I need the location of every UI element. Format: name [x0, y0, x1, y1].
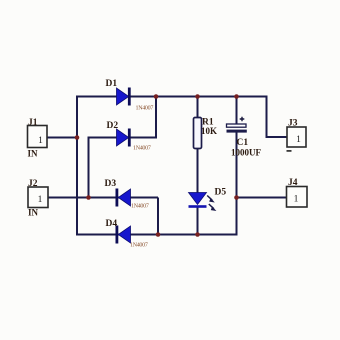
- svg-text:IN: IN: [28, 149, 39, 159]
- svg-text:D5: D5: [215, 188, 227, 198]
- wire C1 top: [236, 97, 238, 125]
- wire riser D2-to-J2 (x=88.5): [88, 137, 90, 198]
- wire J4 row: [237, 197, 287, 199]
- wire rail corner to J3: [267, 96, 288, 138]
- connector J1: [28, 118, 48, 159]
- svg-text:1N4007: 1N4007: [130, 243, 148, 249]
- capacitor C1: [227, 117, 262, 158]
- node C1 top junction: [234, 94, 239, 99]
- wire C1 bottom to rail: [236, 132, 238, 236]
- svg-text:1: 1: [38, 195, 43, 205]
- connector J3: [287, 119, 307, 152]
- diode D3: [105, 179, 149, 210]
- wire riser D3-to-D4 (x=158): [157, 198, 159, 235]
- wire R1 top: [197, 97, 199, 119]
- svg-text:C1: C1: [237, 138, 249, 148]
- LED D5: [189, 188, 227, 212]
- connector J2: [28, 179, 48, 218]
- svg-text:J3: J3: [288, 119, 298, 129]
- svg-text:D2: D2: [107, 121, 119, 131]
- connector J4: [287, 178, 308, 207]
- svg-text:D3: D3: [105, 179, 117, 189]
- wire bottom rail (D4 row / DC-): [77, 234, 237, 236]
- resistor R1: [194, 118, 218, 149]
- node J2 bridge junction: [86, 195, 91, 200]
- wire J1 to riser: [47, 137, 78, 139]
- diode D4: [106, 219, 148, 249]
- node C1/J4 junction: [234, 195, 239, 200]
- wire J2 / D3 cathode row: [48, 197, 158, 199]
- svg-text:1: 1: [294, 195, 299, 205]
- node D3/D4 anode junction: [156, 232, 161, 237]
- svg-text:1N4007: 1N4007: [133, 146, 151, 152]
- svg-text:D1: D1: [106, 79, 118, 89]
- svg-text:1000UF: 1000UF: [231, 148, 261, 158]
- svg-text:IN: IN: [28, 208, 39, 218]
- wire R1 bottom to LED: [197, 148, 199, 194]
- diode D1: [106, 79, 154, 112]
- svg-text:J4: J4: [288, 178, 298, 188]
- svg-text:10K: 10K: [201, 126, 217, 136]
- wire D2 anode row: [89, 137, 157, 139]
- node D1/D2 cathode junction: [154, 94, 159, 99]
- svg-text:D4: D4: [106, 219, 118, 229]
- diode D2: [107, 121, 151, 152]
- node R1 top junction: [195, 94, 200, 99]
- svg-text:1: 1: [38, 136, 43, 146]
- wire top rail (D1 row / DC+): [77, 96, 267, 98]
- svg-text:1N4007: 1N4007: [131, 204, 149, 210]
- node J1 bridge junction: [75, 135, 80, 140]
- svg-text:J1: J1: [28, 118, 38, 128]
- svg-text:1N4007: 1N4007: [136, 106, 154, 112]
- wire left riser J1 node (x=77): [76, 96, 78, 236]
- wire LED cathode to rail: [197, 206, 199, 235]
- svg-text:J2: J2: [28, 179, 38, 189]
- svg-text:1: 1: [296, 135, 301, 145]
- wire riser D1/D2 cathodes join (x=155.5): [155, 97, 157, 139]
- node LED cathode rail junction: [195, 232, 200, 237]
